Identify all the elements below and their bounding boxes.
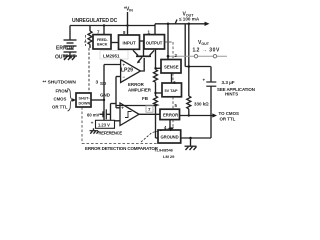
svg-text:3: 3: [96, 80, 99, 86]
gray pad box 7 feedback die pad: [146, 105, 153, 112]
pad box GROUND pin4: [158, 130, 181, 143]
svg-text:330 kΩ: 330 kΩ: [194, 102, 209, 107]
wire reference rail vertical: [103, 65, 105, 121]
wire arrowhead Vout: [205, 22, 210, 26]
gray bleed box under input pad: [100, 51, 128, 60]
wire amp minus riser: [115, 77, 117, 108]
svg-text:OUTPUT: OUTPUT: [55, 55, 76, 61]
wire shutdown pad to reference rail: [91, 99, 104, 101]
divider chain from output: [154, 49, 158, 138]
wire reference to comparator minus: [115, 120, 121, 122]
svg-text:FROM: FROM: [56, 89, 69, 94]
svg-text:+: +: [91, 121, 94, 126]
comparator hysteresis symbol: [125, 112, 132, 118]
svg-text:LM2951: LM2951: [103, 54, 120, 59]
wire tap to output cap branch: [185, 66, 211, 68]
wire between feedback and input pads: [111, 42, 119, 44]
pad box 5V TAP pin6: [162, 83, 182, 97]
svg-text:1.23 V: 1.23 V: [98, 123, 110, 128]
ground below battery: [63, 56, 77, 60]
svg-text:SHUT-: SHUT-: [79, 96, 91, 100]
battery B1: [64, 26, 77, 57]
wire tick 100mA leader: [175, 20, 177, 24]
svg-text:3.3 µF: 3.3 µF: [222, 80, 235, 85]
wire Vout top line: [155, 23, 207, 25]
node dot sense on gray line: [167, 55, 170, 58]
svg-text:TO CMOS: TO CMOS: [219, 111, 239, 116]
svg-text:TL/H/8546: TL/H/8546: [154, 148, 174, 153]
wire amp output to transistor: [141, 58, 145, 71]
comparator U2 error detection: [120, 103, 139, 126]
svg-text:SENSE: SENSE: [164, 64, 179, 69]
wire feedback horizontal: [116, 105, 156, 107]
svg-text:5V TAP: 5V TAP: [165, 89, 178, 93]
svg-text:ERROR: ERROR: [163, 112, 178, 117]
arrowhead of leader: [169, 127, 174, 131]
svg-text:REFERENCE: REFERENCE: [99, 130, 123, 135]
svg-text:FEED-: FEED-: [97, 38, 108, 42]
ground below reference: [90, 128, 99, 133]
svg-text:+: +: [121, 105, 124, 110]
svg-text:SD: SD: [100, 81, 107, 86]
resistor R3 330k pull-up: [187, 96, 191, 116]
svg-text:BACK: BACK: [97, 43, 108, 47]
svg-text:ERROR: ERROR: [56, 46, 74, 52]
svg-text:−: −: [123, 75, 126, 80]
node dot shutdown junction: [103, 99, 105, 101]
op-amp U1 error amplifier: [121, 60, 141, 83]
node dot rail-feedback junction: [103, 24, 105, 26]
wire sense riser: [167, 24, 169, 60]
brace from cmos lines: [68, 89, 73, 112]
wire arrow from cmos into shutdown: [72, 99, 74, 101]
svg-text:GROUND: GROUND: [161, 135, 179, 140]
node dot 330k to error wire: [188, 114, 190, 116]
node dot sense junction on Vout line: [167, 23, 170, 26]
svg-text:LM 29: LM 29: [163, 154, 175, 159]
pad box ERROR pin5: [160, 109, 180, 119]
node dot right drop junction on Vout line: [188, 23, 191, 26]
wire ground pad to cap bottom: [181, 137, 211, 139]
svg-text:HINTS: HINTS: [225, 91, 238, 96]
svg-text:** SHUTDOWN: ** SHUTDOWN: [43, 80, 77, 86]
svg-text:1.2→30V: 1.2→30V: [193, 48, 221, 54]
svg-text:≤ 100 mA: ≤ 100 mA: [179, 17, 200, 22]
svg-text:ERROR DETECTION COMPARATOR: ERROR DETECTION COMPARATOR: [85, 146, 159, 151]
wire sense to tap riser: [171, 73, 173, 83]
resistor R-shutdown pullup: [88, 26, 92, 49]
wire amp minus input: [116, 76, 121, 78]
wire 60mV offset battery chain: [100, 104, 117, 121]
svg-text:60 mV: 60 mV: [87, 113, 100, 118]
svg-text:+: +: [203, 78, 206, 83]
pad box OUTPUT pin1: [144, 35, 165, 49]
node dot sense stub: [154, 67, 156, 69]
wire error to ground riser: [169, 120, 171, 130]
svg-text:INPUT: INPUT: [123, 40, 136, 45]
svg-text:ERROR: ERROR: [128, 82, 145, 87]
wire error pad to TTL arrow: [180, 115, 215, 117]
node dot at cap branch: [188, 65, 191, 68]
svg-text:AMPLIFIER: AMPLIFIER: [128, 88, 152, 93]
pad box INPUT pin8: [119, 35, 140, 49]
svg-text:FB: FB: [142, 96, 149, 101]
svg-text:OUTPUT: OUTPUT: [146, 40, 163, 45]
resistor R2: [154, 96, 158, 106]
transistor Q1 pass device: [133, 41, 154, 63]
svg-text:+: +: [123, 63, 126, 68]
wire right drop to 330k: [188, 24, 190, 96]
IC die dashed outline: [82, 35, 173, 144]
svg-text:LP29: LP29: [121, 68, 133, 74]
svg-text:OR TTL: OR TTL: [220, 116, 236, 121]
resistor R1: [154, 70, 158, 83]
svg-text:DOWN: DOWN: [79, 101, 91, 105]
wire amp plus input: [104, 64, 121, 66]
svg-text:OR TTL: OR TTL: [52, 105, 68, 110]
capacitor C1 output 3.3uF: [206, 67, 216, 139]
wire tap stub: [156, 92, 163, 94]
wire arrowhead to cmos: [212, 113, 217, 117]
wire comparator plus stub: [116, 107, 120, 109]
wire sense stub: [156, 67, 162, 69]
svg-text:CMOS: CMOS: [54, 97, 67, 102]
pad box FEEDBACK pin7: [93, 35, 111, 49]
node dot tap stub: [154, 92, 156, 94]
node dot ground junction: [189, 137, 192, 140]
wire outer drop to cap branch: [184, 24, 186, 67]
wire resistor to shutdown box (dashed look): [88, 48, 90, 93]
wire comparator output to error pad: [139, 113, 160, 115]
reference box 1.23V: [96, 120, 115, 128]
node Vin riser: [127, 12, 129, 35]
dashed leader to comparator: [141, 128, 171, 142]
node dot rail-input junction: [126, 24, 128, 26]
ground symbol bottom right: [185, 138, 197, 150]
svg-text:UNREGULATED DC: UNREGULATED DC: [72, 18, 118, 24]
node dot feedback junction: [154, 104, 156, 106]
gray external divider line with terminals: [168, 55, 227, 58]
wire output pad riser: [154, 24, 156, 35]
svg-text:GND: GND: [100, 93, 111, 98]
shutdown pad box pin3: [76, 93, 91, 107]
wire between input and output pads: [140, 40, 145, 42]
wire unregulated input rail: [70, 25, 155, 27]
wire divider bottom to ground pad: [156, 137, 159, 139]
node input riser to feedback pad: [103, 26, 105, 35]
pad box SENSE pin2: [161, 60, 181, 74]
